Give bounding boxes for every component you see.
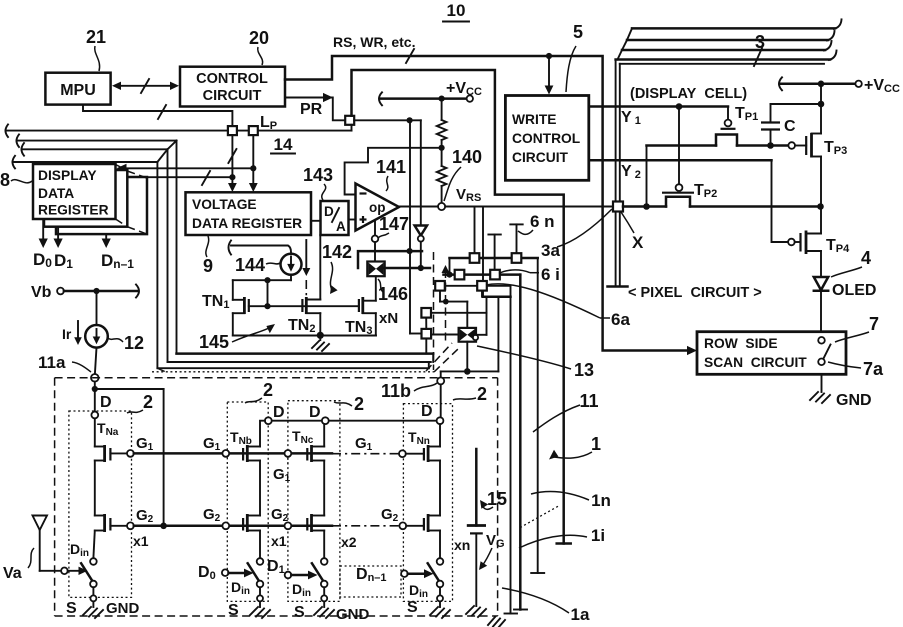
node Vb junction xyxy=(93,288,99,294)
transistor TP2 xyxy=(662,107,717,207)
node square G xyxy=(422,329,432,339)
node Vcc rail tap xyxy=(818,101,825,108)
node square E xyxy=(477,281,487,291)
wire 11a to D of TNa xyxy=(94,389,96,412)
node bowtie2 bottom xyxy=(464,368,471,375)
svg-text:20: 20 xyxy=(249,28,269,48)
wire bus 3 line A xyxy=(627,19,842,40)
node square D xyxy=(435,281,445,291)
label 4 xyxy=(831,248,871,277)
label 9 xyxy=(203,236,213,276)
svg-text:D: D xyxy=(324,204,334,219)
svg-text:DISPLAY: DISPLAY xyxy=(38,168,97,183)
svg-text:VOLTAGE: VOLTAGE xyxy=(192,197,257,212)
current source 12 xyxy=(85,325,108,348)
svg-text:OLED: OLED xyxy=(832,282,876,299)
svg-text:D: D xyxy=(421,403,433,420)
svg-text:4: 4 xyxy=(861,248,871,268)
label 12 xyxy=(108,333,144,353)
terminal Vb xyxy=(31,284,139,301)
wire TNb middle xyxy=(259,461,261,516)
resistor upper 140 xyxy=(437,99,447,148)
label 7 xyxy=(835,314,879,342)
label 2 cell b xyxy=(245,380,273,403)
wire TN3 drain xyxy=(363,300,376,302)
wire bowtie1 right xyxy=(385,267,430,270)
current source 144 xyxy=(281,254,302,275)
wire square D to bowtie2 top xyxy=(440,290,467,328)
label 21 xyxy=(86,27,106,71)
label 3a xyxy=(541,209,612,260)
switch Din cell c xyxy=(292,531,328,602)
wire 6n stub cap xyxy=(510,224,522,254)
wire RS/WR bus to row scan xyxy=(285,49,697,355)
svg-text:REGISTER: REGISTER xyxy=(38,203,109,218)
transistor TN2 xyxy=(302,297,306,314)
wire X line right xyxy=(690,205,821,208)
svg-text:CIRCUIT: CIRCUIT xyxy=(512,150,569,165)
svg-text:Vb: Vb xyxy=(31,284,52,301)
svg-text:RS, WR, etc.: RS, WR, etc. xyxy=(333,34,415,50)
node VRS xyxy=(438,203,445,210)
label 8 xyxy=(0,170,32,190)
wire dotted diagonal lines omitted xyxy=(520,505,560,527)
svg-text:DATA REGISTER: DATA REGISTER xyxy=(192,216,302,231)
node on row 274 xyxy=(446,272,452,278)
wire left bus line 4 xyxy=(13,149,168,368)
svg-text:op: op xyxy=(369,200,386,215)
wire OLED to scan xyxy=(820,291,822,337)
cell a dotted box 2 xyxy=(69,411,132,597)
node 147 xyxy=(372,220,379,262)
svg-text:142: 142 xyxy=(322,242,352,262)
terminal G2 cell n xyxy=(381,506,424,529)
capacitor C xyxy=(761,104,796,146)
label 141 xyxy=(376,157,406,191)
node TN1 drain-gate tie top xyxy=(264,277,270,283)
label 2 cell n xyxy=(453,384,487,404)
svg-text:3: 3 xyxy=(755,32,765,52)
label 7a xyxy=(828,359,884,379)
wire TN1 source xyxy=(233,313,245,335)
wire TP1 left to X xyxy=(647,146,717,207)
wire TN2 drain to DA xyxy=(306,235,320,300)
node TP1-X xyxy=(643,203,650,210)
label 6n xyxy=(518,212,555,234)
transistor TNb upper xyxy=(229,421,265,462)
terminal G1 cell a xyxy=(127,435,154,457)
svg-text:9: 9 xyxy=(203,256,213,276)
svg-text:6a: 6a xyxy=(611,310,630,329)
svg-text:xn: xn xyxy=(454,537,470,553)
ground at dashed box corner xyxy=(488,617,505,627)
wire Y1 xyxy=(589,107,728,128)
switch Din cell n xyxy=(409,531,443,602)
switch 13 bowtie2 xyxy=(459,328,479,342)
wire row 258 xyxy=(450,257,538,260)
wire dashed current path with arrow xyxy=(442,265,450,345)
node G2 diode tie xyxy=(160,523,167,530)
wire bus 3 line C xyxy=(618,41,832,60)
wire D1 arrow xyxy=(54,227,63,248)
label 2 cell a xyxy=(127,392,153,413)
wire column 483 from VRS line xyxy=(482,207,484,297)
ground cell a xyxy=(66,600,140,618)
terminal G1 cell b xyxy=(203,435,229,457)
svg-text:11b: 11b xyxy=(381,381,411,401)
wire current arrow i into TN2 xyxy=(302,240,310,297)
label 2 cell c xyxy=(334,394,364,414)
label 11a xyxy=(38,353,91,372)
svg-text:MPU: MPU xyxy=(60,82,96,99)
node Vcc-resistor xyxy=(439,96,445,102)
svg-text:145: 145 xyxy=(199,332,229,352)
wire TN1 drain xyxy=(233,280,245,300)
wire source rail xyxy=(233,335,376,337)
label 20 xyxy=(249,28,269,65)
wire LP node1 to voltage register xyxy=(228,135,237,192)
svg-text:11a: 11a xyxy=(38,353,66,372)
wire 6i stub cap xyxy=(488,235,500,271)
label 6a xyxy=(486,284,630,329)
wire row 285 left xyxy=(445,285,478,287)
wire row 285 right xyxy=(487,285,511,287)
wire to display data register upper xyxy=(117,164,254,173)
control circuit U20 xyxy=(180,67,285,107)
label 11b xyxy=(381,381,437,401)
svg-text:xN: xN xyxy=(379,310,398,327)
svg-text:PR: PR xyxy=(300,101,323,118)
terminal G2 cell b xyxy=(203,506,229,529)
svg-text:CONTROL: CONTROL xyxy=(196,71,268,87)
wire 498 vertical to 11b xyxy=(497,297,499,372)
node dash current join xyxy=(443,299,449,305)
label X xyxy=(621,212,644,252)
svg-text:2: 2 xyxy=(263,380,273,400)
wire square F row xyxy=(431,312,487,314)
label 14 underlined xyxy=(271,135,295,154)
wire Vb down xyxy=(96,291,98,325)
wire op output to VRS xyxy=(399,206,438,208)
node square A xyxy=(470,253,480,263)
wire LP node2 to voltage register xyxy=(249,135,258,192)
wire F to G xyxy=(425,318,427,329)
label 1i xyxy=(519,526,605,548)
wire TP1 right to cap node xyxy=(737,144,788,147)
node 11a xyxy=(91,374,99,382)
node LP square 2 xyxy=(249,126,258,135)
svg-text:7a: 7a xyxy=(863,359,884,379)
svg-text:14: 14 xyxy=(274,135,293,154)
svg-text:10: 10 xyxy=(447,1,466,20)
wire G2 bus xyxy=(134,525,400,528)
wire D bus xyxy=(268,420,440,422)
node square B2 xyxy=(512,253,522,263)
transistor TP1 xyxy=(716,105,758,146)
label 140 xyxy=(444,147,482,201)
terminal D cell a xyxy=(91,394,111,418)
display data register stack box 3 xyxy=(56,177,147,234)
label 144 bracket feed xyxy=(229,241,292,255)
svg-text:(DISPLAY CELL): (DISPLAY CELL) xyxy=(630,86,747,102)
svg-text:ROW SIDE: ROW SIDE xyxy=(704,336,778,351)
wire left bus line 3 xyxy=(22,141,177,362)
svg-text:140: 140 xyxy=(452,147,482,167)
wire TP3 drain down xyxy=(820,157,822,207)
switch Din cell a xyxy=(70,531,97,602)
wire bus 3 line D double xyxy=(616,51,837,64)
transistor TNc upper xyxy=(291,424,324,462)
wire VRS to X node xyxy=(445,206,613,208)
ground at TN2 xyxy=(312,335,329,351)
cell c dotted box 2 xyxy=(288,401,340,602)
wire 486 vertical xyxy=(486,297,488,335)
MPU U21 xyxy=(45,73,110,105)
wire bowtie2 right xyxy=(476,334,487,336)
wire MPU down to LP node xyxy=(83,105,232,127)
wire column 1i down xyxy=(514,275,527,610)
svg-text:13: 13 xyxy=(574,360,594,380)
svg-text:S: S xyxy=(407,599,418,616)
terminal Dn-1 input xyxy=(356,566,434,584)
svg-text:146: 146 xyxy=(378,284,408,304)
transistor TNa lower xyxy=(95,514,127,532)
label Ir xyxy=(62,321,82,345)
wire TP4 source up xyxy=(820,207,822,234)
svg-text:8: 8 xyxy=(0,170,10,190)
wire A to row 274 xyxy=(449,258,451,275)
DA converter 143 xyxy=(321,201,349,235)
wire bowtie2 bottom xyxy=(466,342,468,372)
svg-text:S: S xyxy=(294,604,305,621)
svg-text:Va: Va xyxy=(3,565,22,582)
wire row 274 xyxy=(444,273,521,276)
dotted box Dn-1 ellipsis xyxy=(340,566,401,597)
node on RS bus xyxy=(546,53,552,59)
node square C xyxy=(490,270,500,280)
ground at scan circuit xyxy=(810,374,872,409)
svg-text:1i: 1i xyxy=(591,526,605,545)
svg-text:141: 141 xyxy=(376,157,406,177)
svg-text:2: 2 xyxy=(477,384,487,404)
label 1n xyxy=(531,491,611,510)
terminal D cell n xyxy=(421,403,443,424)
terminal G2 cell a xyxy=(127,507,154,529)
resistor lower xyxy=(437,148,447,203)
transistor TNn lower xyxy=(424,514,440,532)
terminal D0 input xyxy=(198,564,254,582)
wire 147 switch bypass upper xyxy=(358,251,422,268)
wire column 1n down xyxy=(531,258,544,573)
node X line right xyxy=(817,203,824,210)
wire 11b horizontal xyxy=(441,370,499,372)
label 146 xyxy=(378,279,408,304)
node feedback xyxy=(439,145,445,151)
terminal D1 input xyxy=(267,558,318,579)
wire LP bus line xyxy=(6,124,352,137)
wire dashed boundary 142 left xyxy=(433,252,435,370)
svg-text:7: 7 xyxy=(869,314,879,334)
transistor TP3 xyxy=(788,133,847,158)
wire Vcc rail down xyxy=(820,84,822,134)
label 5 xyxy=(566,22,583,92)
switch 146 bowtie xyxy=(367,262,384,277)
wire module 3d dashed corners xyxy=(157,343,459,373)
array dashed box 11 xyxy=(55,378,498,616)
svg-text:6 i: 6 i xyxy=(541,265,560,284)
terminal G1 cell n xyxy=(355,435,424,457)
wire TNn middle xyxy=(439,461,441,516)
node LP square 1 xyxy=(228,126,237,135)
wire G down to nested box xyxy=(425,338,427,353)
svg-text:1n: 1n xyxy=(591,491,611,510)
transistor TN1 xyxy=(244,297,248,314)
node Y1-TP2 xyxy=(676,103,683,110)
wire DA to op plus xyxy=(349,219,356,221)
wire current source to 11a xyxy=(95,348,97,374)
label 147 xyxy=(378,214,409,238)
svg-text:6 n: 6 n xyxy=(530,212,555,231)
wire diode tie vertical xyxy=(267,280,269,306)
wire G1 bus xyxy=(134,452,399,455)
node Vcc rail xyxy=(818,81,825,88)
wire to display data register lower xyxy=(117,171,233,185)
ground cell b xyxy=(228,601,270,619)
svg-text:x1: x1 xyxy=(271,533,287,549)
svg-text:A: A xyxy=(336,219,346,234)
transistor TNc lower xyxy=(291,514,324,532)
svg-text:5: 5 xyxy=(573,22,583,42)
wire Y2 xyxy=(589,160,788,242)
wire left bus line 2 xyxy=(17,134,177,353)
node square B xyxy=(455,270,465,280)
transistor TNa upper xyxy=(95,418,127,462)
wire TN3 source xyxy=(363,313,376,335)
wire D0 arrow xyxy=(39,219,48,248)
label 6i xyxy=(499,265,560,284)
label 1 xyxy=(549,434,601,460)
transistor TN3 xyxy=(359,297,363,314)
OLED diode 4 xyxy=(814,277,877,299)
wire 297 horizontal xyxy=(483,295,511,298)
transistor TP4 xyxy=(788,231,850,256)
label 15 xyxy=(479,489,507,570)
display data register stack box 2 xyxy=(44,170,127,227)
node X square xyxy=(613,202,623,212)
svg-text:11: 11 xyxy=(579,391,598,411)
wire 11a to G2 diode connection xyxy=(95,389,164,526)
svg-text:2: 2 xyxy=(354,394,364,414)
wire bowtie1 bottom to TN3 drain xyxy=(375,276,377,301)
svg-text:15: 15 xyxy=(487,489,507,509)
svg-text:D: D xyxy=(309,404,321,421)
svg-text:x1: x1 xyxy=(133,533,149,549)
svg-text:Ir: Ir xyxy=(62,326,72,342)
svg-text:X: X xyxy=(632,233,644,252)
svg-text:GND: GND xyxy=(336,606,370,623)
wire X column double line xyxy=(608,60,628,287)
row side scan circuit U7 xyxy=(697,332,846,375)
label 13 xyxy=(477,346,594,380)
diode symbol on PR column xyxy=(415,120,427,268)
cell n dotted box 2 xyxy=(403,404,452,602)
svg-text:12: 12 xyxy=(124,333,144,353)
wire PR to right columns xyxy=(354,119,421,121)
svg-text:CIRCUIT: CIRCUIT xyxy=(203,88,262,104)
node on 251 wire xyxy=(407,248,413,254)
label 3 with slash xyxy=(754,32,765,66)
svg-text:S: S xyxy=(66,600,77,617)
cell b dotted box 2 xyxy=(227,402,268,601)
wire gate bus TN1-TN3 xyxy=(249,305,359,307)
node 11b xyxy=(437,371,444,417)
svg-text:143: 143 xyxy=(303,165,333,185)
node 11a junction xyxy=(92,386,98,392)
node TN2 source rail xyxy=(317,332,324,339)
svg-text:SCAN CIRCUIT: SCAN CIRCUIT xyxy=(704,355,807,370)
wire TNc middle xyxy=(323,461,325,516)
wire TN2 source xyxy=(306,313,320,335)
node PR square xyxy=(345,116,354,125)
wire column 1a down xyxy=(505,286,518,614)
svg-text:WRITE: WRITE xyxy=(512,112,556,127)
ground cell n xyxy=(407,599,450,618)
svg-text:21: 21 xyxy=(86,27,106,47)
op-amp 141 xyxy=(356,184,400,231)
node gate tie xyxy=(264,303,270,309)
terminal G2 cell c xyxy=(271,506,291,529)
terminal +Vcc left xyxy=(379,80,482,105)
label 10 xyxy=(443,1,469,22)
label 11 xyxy=(533,391,599,432)
voltage data register U9 xyxy=(186,192,312,235)
wire bus 3 line B xyxy=(622,31,835,50)
wire PR column down xyxy=(409,120,411,333)
svg-text:147: 147 xyxy=(379,214,409,234)
display data register U8 front xyxy=(33,164,116,219)
wire arrow into write control xyxy=(545,56,554,95)
wire module boundary 14 top xyxy=(352,70,571,544)
wire square E stub down xyxy=(481,290,483,296)
wire register to DA xyxy=(311,220,321,222)
svg-text:D: D xyxy=(273,404,285,421)
terminal Va xyxy=(3,516,88,583)
wire TNa middle xyxy=(94,461,96,516)
wire module nested bottoms xyxy=(152,354,434,372)
svg-text:3a: 3a xyxy=(541,241,560,260)
svg-text:1a: 1a xyxy=(571,605,590,624)
transistor TNn upper xyxy=(408,424,440,462)
svg-text:CONTROL: CONTROL xyxy=(512,131,580,146)
svg-text:D: D xyxy=(100,394,112,411)
svg-text:x2: x2 xyxy=(341,534,357,550)
svg-text:1: 1 xyxy=(591,434,601,454)
node square F xyxy=(421,308,431,318)
node cap bottom xyxy=(767,142,774,149)
wire TP4 drain down xyxy=(820,251,822,277)
ground cell c xyxy=(294,601,370,623)
wire X line left xyxy=(623,205,666,208)
wire v410 to square G xyxy=(410,333,422,335)
label 145 xyxy=(199,324,275,352)
wire PR xyxy=(285,93,346,120)
wire square A stub up xyxy=(474,207,476,255)
wire G to bowtie2 xyxy=(431,334,459,336)
transistor TNb lower xyxy=(229,514,260,532)
node on 268 wire xyxy=(418,265,424,271)
svg-text:S: S xyxy=(228,602,239,619)
svg-text:GND: GND xyxy=(836,392,872,409)
